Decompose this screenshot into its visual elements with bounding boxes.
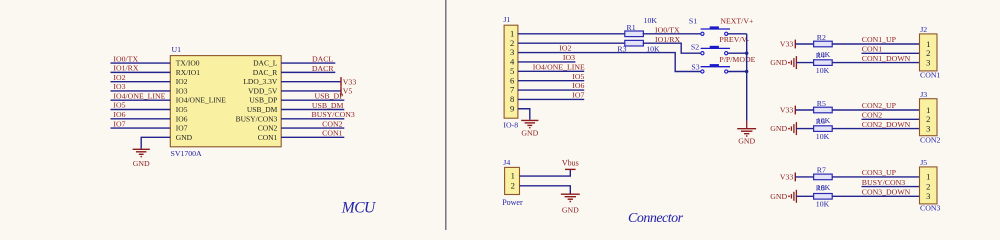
svg-text:IO3: IO3 bbox=[563, 53, 575, 62]
svg-text:IO3: IO3 bbox=[176, 86, 188, 95]
wire net IO0/TX (left of U1) bbox=[111, 62, 171, 64]
ground symbol below J4 bbox=[561, 193, 580, 195]
wire U1 right pin row 4 bbox=[281, 90, 341, 92]
svg-text:Vbus: Vbus bbox=[562, 158, 579, 167]
resistor R6 bbox=[814, 126, 833, 132]
svg-text:GND: GND bbox=[770, 124, 787, 133]
wire U1 right pin row 8 bbox=[281, 127, 344, 129]
svg-text:P/P/MODE: P/P/MODE bbox=[719, 55, 755, 64]
svg-text:R1: R1 bbox=[627, 23, 636, 32]
svg-text:IO3: IO3 bbox=[113, 82, 125, 91]
svg-text:CON3: CON3 bbox=[920, 204, 940, 213]
resistor R2 bbox=[814, 41, 833, 47]
wire net BUSY/CON3 to J5.2 bbox=[862, 186, 920, 188]
svg-text:IO6: IO6 bbox=[113, 110, 125, 119]
wire U1 right pin row 1 bbox=[281, 62, 335, 64]
svg-text:1: 1 bbox=[926, 172, 930, 182]
svg-text:USB_DM: USB_DM bbox=[247, 105, 278, 114]
svg-text:CON3_DOWN: CON3_DOWN bbox=[862, 188, 911, 197]
svg-text:Power: Power bbox=[502, 198, 523, 207]
junction dot S2-bus bbox=[745, 52, 748, 55]
svg-text:VDD_5V: VDD_5V bbox=[248, 86, 278, 95]
wire J1.4 net IO3 bbox=[518, 61, 576, 63]
svg-text:MCU: MCU bbox=[341, 200, 377, 217]
resistor R5 bbox=[814, 107, 833, 113]
switch S2 bbox=[701, 47, 730, 49]
svg-text:GND: GND bbox=[176, 133, 193, 142]
wire net IO3 (left of U1) bbox=[111, 90, 171, 92]
ground bus vertical wire bbox=[746, 34, 748, 121]
power port V5 bbox=[340, 86, 342, 95]
svg-text:IO1/RX: IO1/RX bbox=[113, 64, 138, 73]
svg-text:3: 3 bbox=[926, 191, 930, 201]
svg-text:IO6: IO6 bbox=[572, 81, 584, 90]
svg-text:IO5: IO5 bbox=[113, 101, 125, 110]
wire S3 right pin to ground bus bbox=[728, 71, 747, 73]
svg-text:V33: V33 bbox=[343, 77, 357, 86]
svg-text:S1: S1 bbox=[689, 16, 697, 25]
svg-text:CON3_UP: CON3_UP bbox=[862, 168, 897, 177]
svg-text:USB_DP: USB_DP bbox=[249, 96, 277, 105]
svg-text:GND: GND bbox=[521, 129, 538, 138]
svg-text:USB_DM: USB_DM bbox=[312, 101, 344, 110]
svg-text:CON2: CON2 bbox=[920, 136, 940, 145]
section divider line bbox=[445, 0, 447, 230]
wire R4 to J2.3, net CON1_DOWN bbox=[832, 62, 919, 64]
ground symbol below J1 bbox=[521, 119, 538, 121]
junction dot S3-bus bbox=[745, 70, 748, 73]
svg-text:R5: R5 bbox=[817, 99, 826, 108]
wire J1.7 net IO6 bbox=[518, 89, 584, 91]
svg-text:2: 2 bbox=[926, 181, 930, 191]
wire net IO5 (left of U1) bbox=[111, 109, 171, 111]
svg-text:10K: 10K bbox=[816, 200, 830, 209]
svg-text:CON2_UP: CON2_UP bbox=[862, 101, 897, 110]
wire V33 to R7 bbox=[795, 176, 813, 178]
svg-text:2: 2 bbox=[511, 180, 515, 190]
svg-text:NEXT/V+: NEXT/V+ bbox=[720, 16, 754, 25]
power port V33 (right of U1) bbox=[340, 77, 342, 86]
wire R6 to J3.3, net CON2_DOWN bbox=[832, 128, 919, 130]
wire U1 right pin row 2 bbox=[281, 71, 335, 73]
svg-text:PREV/V-: PREV/V- bbox=[719, 35, 749, 44]
svg-text:U1: U1 bbox=[172, 45, 182, 54]
svg-text:GND: GND bbox=[738, 136, 755, 145]
svg-text:V5: V5 bbox=[343, 87, 353, 96]
svg-text:10K: 10K bbox=[816, 132, 830, 141]
svg-text:IO2: IO2 bbox=[559, 44, 571, 53]
connector J5 body bbox=[920, 167, 938, 204]
svg-text:GND: GND bbox=[133, 159, 150, 168]
svg-text:IO0/TX: IO0/TX bbox=[113, 54, 138, 63]
svg-text:BUSY/CON3: BUSY/CON3 bbox=[236, 114, 278, 123]
power ground symbol (CON2 block) bbox=[788, 128, 790, 130]
svg-text:IO7: IO7 bbox=[572, 91, 584, 100]
svg-text:3: 3 bbox=[926, 123, 930, 133]
svg-text:CON1_DOWN: CON1_DOWN bbox=[862, 54, 911, 63]
svg-text:1: 1 bbox=[511, 171, 515, 181]
resistor R7 bbox=[814, 174, 833, 180]
power ground symbol (CON1 block) bbox=[788, 62, 790, 64]
svg-text:BUSY/CON3: BUSY/CON3 bbox=[312, 110, 355, 119]
wire V33 to R5 bbox=[795, 109, 813, 111]
svg-text:IO1/RX: IO1/RX bbox=[655, 35, 680, 44]
svg-text:IO6: IO6 bbox=[176, 114, 188, 123]
svg-text:CON1: CON1 bbox=[322, 129, 342, 138]
wire net IO2 (left of U1) bbox=[111, 81, 171, 83]
svg-text:LDO_3.3V: LDO_3.3V bbox=[243, 77, 278, 86]
svg-text:J4: J4 bbox=[503, 158, 510, 167]
wire U1 right pin row 6 bbox=[281, 109, 344, 111]
wire net IO6 (left of U1) bbox=[111, 118, 171, 120]
wire U1 right pin row 3 bbox=[281, 81, 341, 83]
connector J3 body bbox=[920, 99, 938, 136]
svg-text:CON2: CON2 bbox=[322, 119, 342, 128]
wire J1.5 net IO4/ONE_LINE bbox=[518, 70, 584, 72]
svg-text:J2: J2 bbox=[920, 25, 927, 34]
svg-text:DACL: DACL bbox=[312, 55, 333, 64]
svg-text:R7: R7 bbox=[817, 166, 826, 175]
wire J1.3 to S3, net IO2 bbox=[518, 53, 703, 72]
wire R2 to J2.1, net CON1_UP bbox=[832, 43, 919, 45]
svg-text:GND: GND bbox=[562, 205, 579, 214]
svg-text:GND: GND bbox=[770, 58, 787, 67]
svg-text:V33: V33 bbox=[780, 173, 794, 182]
wire ground to R6 bbox=[796, 128, 813, 130]
switch S1 bbox=[701, 28, 730, 30]
wire net CON1 to J2.2 bbox=[862, 52, 920, 54]
svg-text:CON1: CON1 bbox=[258, 133, 278, 142]
wire J1.6 net IO5 bbox=[518, 80, 584, 82]
svg-text:R2: R2 bbox=[817, 33, 826, 42]
svg-text:GND: GND bbox=[770, 192, 787, 201]
svg-text:DAC_L: DAC_L bbox=[253, 59, 278, 68]
svg-text:CON1_UP: CON1_UP bbox=[862, 35, 897, 44]
switch S3 bbox=[701, 66, 730, 68]
svg-text:SV1700A: SV1700A bbox=[171, 149, 203, 158]
svg-text:IO4/ONE_LINE: IO4/ONE_LINE bbox=[176, 96, 226, 105]
wire ground to R4 bbox=[796, 62, 813, 64]
svg-text:DACR: DACR bbox=[312, 64, 334, 73]
wire U1 GND pin to ground bbox=[141, 137, 170, 148]
IC U1 SV1700A body bbox=[170, 56, 281, 147]
connector J2 body bbox=[920, 34, 938, 71]
connector J1 body bbox=[504, 25, 518, 118]
wire net IO4/ONE_LINE (left of U1) bbox=[111, 99, 171, 101]
wire U1 right pin row 7 bbox=[281, 118, 344, 120]
svg-text:CON2_DOWN: CON2_DOWN bbox=[862, 120, 911, 129]
svg-text:IO2: IO2 bbox=[113, 73, 125, 82]
svg-text:IO0/TX: IO0/TX bbox=[655, 26, 680, 35]
svg-text:IO2: IO2 bbox=[176, 77, 188, 86]
svg-text:10K: 10K bbox=[644, 16, 658, 25]
svg-text:RX/IO1: RX/IO1 bbox=[176, 68, 200, 77]
svg-text:TX/IO0: TX/IO0 bbox=[176, 59, 200, 68]
wire J1.9 to ground bbox=[518, 109, 530, 120]
power ground symbol (CON3 block) bbox=[788, 195, 790, 197]
svg-text:J5: J5 bbox=[920, 158, 927, 167]
svg-text:10K: 10K bbox=[816, 66, 830, 75]
svg-text:IO7: IO7 bbox=[113, 119, 125, 128]
wire V33 to R2 bbox=[795, 43, 813, 45]
wire U1 right pin row 9 bbox=[281, 136, 344, 138]
svg-text:CON2: CON2 bbox=[258, 124, 278, 133]
wire R8 to J5.3, net CON3_DOWN bbox=[832, 195, 919, 197]
wire R5 to J3.1, net CON2_UP bbox=[832, 109, 919, 111]
svg-text:S2: S2 bbox=[691, 43, 699, 52]
svg-text:CON1: CON1 bbox=[920, 71, 940, 80]
svg-text:Connector: Connector bbox=[628, 211, 684, 226]
wire R3 to S2, net IO1/RX bbox=[643, 43, 703, 53]
wire J1.2 to R3 bbox=[518, 42, 626, 44]
wire net IO7 (left of U1) bbox=[111, 127, 171, 129]
resistor R1 bbox=[625, 31, 644, 37]
svg-text:R8: R8 bbox=[816, 184, 825, 193]
wire net IO1/RX (left of U1) bbox=[111, 71, 171, 73]
resistor R3 bbox=[625, 40, 644, 46]
svg-text:IO4/ONE_LINE: IO4/ONE_LINE bbox=[533, 62, 585, 71]
svg-text:IO5: IO5 bbox=[176, 105, 188, 114]
svg-text:IO4/ONE_LINE: IO4/ONE_LINE bbox=[113, 91, 165, 100]
svg-text:CON1: CON1 bbox=[862, 45, 882, 54]
wire net CON2 to J3.2 bbox=[862, 118, 920, 120]
ground symbol of switch bus bbox=[737, 128, 756, 130]
svg-text:BUSY/CON3: BUSY/CON3 bbox=[862, 178, 905, 187]
svg-text:V33: V33 bbox=[780, 106, 794, 115]
svg-text:9: 9 bbox=[510, 103, 514, 113]
svg-text:3: 3 bbox=[926, 57, 930, 67]
wire ground to R8 bbox=[796, 195, 813, 197]
wire J1.8 net IO7 bbox=[518, 98, 584, 100]
svg-text:CON2: CON2 bbox=[862, 111, 882, 120]
wire R7 to J5.1, net CON3_UP bbox=[832, 176, 919, 178]
wire J1.1 to R1 bbox=[518, 33, 626, 35]
svg-text:V33: V33 bbox=[780, 40, 794, 49]
wire S1 right pin to ground bus bbox=[728, 33, 747, 35]
wire J4.2 to ground bbox=[520, 186, 571, 194]
wire S2 right pin to ground bus bbox=[728, 52, 747, 54]
svg-text:USB_DP: USB_DP bbox=[314, 92, 344, 101]
svg-text:IO7: IO7 bbox=[176, 124, 188, 133]
wire J4.1 to Vbus bbox=[520, 170, 571, 177]
ground symbol below U1 bbox=[133, 148, 150, 150]
power port Vbus bbox=[565, 168, 576, 170]
svg-text:DAC_R: DAC_R bbox=[253, 68, 278, 77]
svg-text:IO-8: IO-8 bbox=[503, 121, 518, 130]
svg-text:J1: J1 bbox=[503, 15, 510, 24]
svg-text:J3: J3 bbox=[920, 90, 927, 99]
resistor R4 bbox=[814, 60, 833, 66]
svg-text:S3: S3 bbox=[691, 62, 699, 71]
ground stub (red) bbox=[746, 121, 748, 129]
resistor R8 bbox=[814, 194, 833, 200]
wire R1 to S1, net IO0/TX bbox=[643, 33, 703, 35]
svg-text:R6: R6 bbox=[816, 117, 825, 126]
connector J4 body bbox=[505, 167, 520, 194]
svg-text:R4: R4 bbox=[816, 51, 825, 60]
wire U1 right pin row 5 bbox=[281, 99, 344, 101]
svg-text:IO5: IO5 bbox=[572, 72, 584, 81]
